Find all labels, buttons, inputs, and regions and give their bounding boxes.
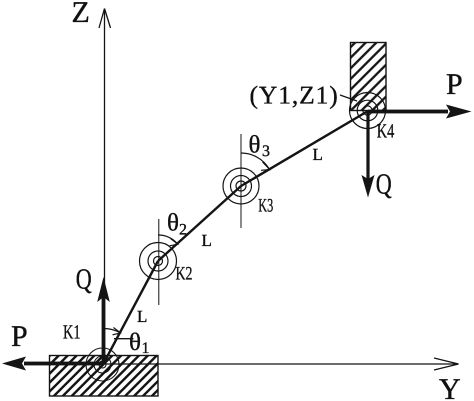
Y axis <box>104 358 459 370</box>
force P arrow at K4 (thick, pointing right) <box>368 105 472 119</box>
svg-text:2: 2 <box>179 222 187 239</box>
node K2 (concentric circles) <box>140 243 177 280</box>
svg-text:(Y1,Z1): (Y1,Z1) <box>250 81 339 110</box>
force Q arrow at K1 (thick, pointing up) <box>97 277 110 364</box>
force Q arrow at K4 (thick, pointing down) <box>362 111 375 198</box>
svg-text:1: 1 <box>142 340 150 357</box>
svg-text:P: P <box>446 68 463 101</box>
node K3 (concentric circles) <box>223 168 259 204</box>
support hatched block bottom-left (ground at K1) <box>50 356 159 397</box>
link L (K3 to K4) <box>241 111 368 186</box>
support hatched block top-right (wall at K4) <box>351 43 387 111</box>
Z axis <box>99 9 111 364</box>
vertical reference line through K2 <box>158 219 160 305</box>
angle arc theta1 at K1 <box>104 328 121 335</box>
svg-text:3: 3 <box>262 143 270 160</box>
svg-text:L: L <box>313 145 323 164</box>
svg-text:L: L <box>137 307 147 326</box>
svg-text:K1: K1 <box>63 321 81 343</box>
svg-text:K4: K4 <box>377 121 395 143</box>
svg-text:θ: θ <box>249 132 261 159</box>
svg-text:Y: Y <box>439 373 461 401</box>
angle arc theta2 at K2 <box>158 235 178 246</box>
svg-text:L: L <box>202 231 212 250</box>
svg-text:K3: K3 <box>258 196 273 217</box>
svg-text:P: P <box>11 320 28 353</box>
link L (K1 to K2) <box>104 261 159 364</box>
link L (K2 to K3) <box>158 186 241 261</box>
theta1 leader line <box>114 338 134 340</box>
svg-text:K2: K2 <box>176 264 193 285</box>
force P arrow at K1 (thick, pointing left) <box>2 357 104 371</box>
node K1 (pin at origin, concentric circles) <box>86 348 119 381</box>
svg-text:Q: Q <box>76 264 92 296</box>
angle arc theta3 at K3 <box>241 153 270 170</box>
svg-text:Q: Q <box>376 169 392 201</box>
svg-text:θ: θ <box>129 329 141 356</box>
vertical reference line through K3 <box>240 134 242 228</box>
svg-text:θ: θ <box>167 210 179 237</box>
node K4 (concentric circles) <box>350 93 386 129</box>
svg-text:Z: Z <box>72 0 90 29</box>
leader line from (Y1,Z1) to node K4 <box>340 95 357 101</box>
